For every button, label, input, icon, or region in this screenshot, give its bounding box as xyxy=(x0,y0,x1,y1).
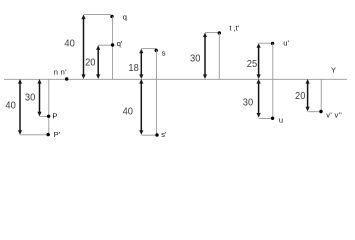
svg-text:s': s' xyxy=(161,130,167,139)
point v xyxy=(319,110,322,113)
dimension 20 (v depth) xyxy=(306,79,310,111)
svg-text:40: 40 xyxy=(5,101,16,112)
point u' xyxy=(271,42,274,45)
point P' xyxy=(47,133,50,136)
svg-text:t ,t': t ,t' xyxy=(229,24,239,33)
projector u'-u xyxy=(272,43,274,118)
point P xyxy=(47,115,50,118)
tick to u xyxy=(259,117,273,119)
svg-text:P: P xyxy=(52,112,57,121)
axis line XY xyxy=(4,78,347,80)
svg-text:40: 40 xyxy=(64,39,75,50)
svg-text:30: 30 xyxy=(25,92,36,103)
tick to P xyxy=(40,115,49,117)
svg-text:v' v'': v' v'' xyxy=(326,110,342,119)
dimension 40 (P' depth) xyxy=(18,79,22,135)
dimension 30 (P depth) xyxy=(37,79,41,116)
dimension 40 (s' depth) xyxy=(139,79,143,135)
dimension 30 (u depth) xyxy=(257,79,261,118)
svg-text:n n': n n' xyxy=(54,67,67,76)
svg-text:P': P' xyxy=(54,130,61,139)
svg-text:20: 20 xyxy=(295,91,306,102)
point t t' xyxy=(218,31,221,34)
projector q-axis xyxy=(112,17,114,80)
connector to q' xyxy=(98,44,112,46)
svg-text:30: 30 xyxy=(243,97,254,108)
dimension 18 (s height) xyxy=(139,49,143,79)
tick to P' xyxy=(20,134,48,136)
dimension 30 (t height) xyxy=(203,33,207,80)
projector v-axis xyxy=(320,79,322,112)
svg-text:s: s xyxy=(162,48,166,57)
dimension 20 (q' height) xyxy=(96,45,100,79)
svg-text:Y: Y xyxy=(331,66,336,75)
svg-text:u': u' xyxy=(283,38,289,47)
tick to v xyxy=(308,111,321,113)
point q xyxy=(110,15,113,18)
projector s-s' xyxy=(155,50,157,135)
connector to q xyxy=(84,13,112,15)
svg-text:40: 40 xyxy=(123,106,134,117)
point u xyxy=(271,117,274,120)
projector P-P' xyxy=(48,79,50,135)
dimension 25 (u' height) xyxy=(257,43,261,79)
svg-text:20: 20 xyxy=(85,58,96,69)
connector to u' xyxy=(259,42,273,44)
point s' xyxy=(155,133,158,136)
connector to s xyxy=(141,48,156,50)
svg-text:u: u xyxy=(279,116,283,125)
tick to s' xyxy=(141,134,157,136)
point q' xyxy=(111,43,114,46)
dimension 40 (q height) xyxy=(81,15,85,80)
node n n' dot on axis xyxy=(65,77,68,80)
svg-text:18: 18 xyxy=(128,63,139,74)
point s xyxy=(155,49,158,52)
svg-text:q: q xyxy=(123,12,127,21)
svg-text:q': q' xyxy=(117,39,123,48)
projector t-axis xyxy=(218,33,220,79)
svg-text:30: 30 xyxy=(190,53,201,64)
svg-text:25: 25 xyxy=(247,59,258,70)
connector to t xyxy=(205,32,219,34)
